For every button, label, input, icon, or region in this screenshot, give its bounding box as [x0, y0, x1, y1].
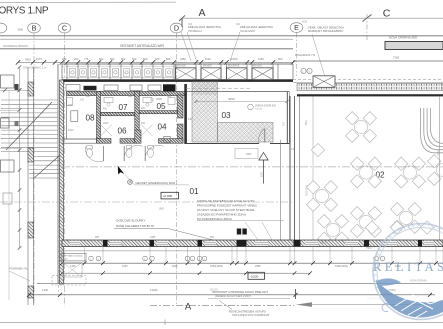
svg-text:04: 04: [157, 122, 167, 131]
svg-text:GEODET (ZAMEROVACI) BOD: GEODET (ZAMEROVACI) BOD: [136, 181, 176, 185]
svg-text:2640: 2640: [18, 28, 24, 31]
svg-text:2065: 2065: [255, 265, 261, 268]
tables room 02: [346, 112, 377, 143]
room 02 top wall dashed edge: [293, 79, 443, 81]
stair direction line: [6, 102, 52, 150]
svg-text:B: B: [32, 24, 37, 33]
dim line bottom 2: [62, 272, 310, 274]
room 03 hatched band horizontal: [218, 123, 274, 143]
svg-text:A: A: [185, 302, 192, 313]
svg-text:ZASAZEN DO PARAPETNIHO ZDIVA: ZASAZEN DO PARAPETNIHO ZDIVA: [197, 213, 246, 217]
svg-text:600x600: 600x600: [177, 65, 187, 67]
counter curves: [421, 108, 443, 153]
left margin dim line: [0, 89, 28, 91]
staircase hatch upper: [1, 100, 58, 152]
paragraph leaders: [245, 222, 258, 240]
demolished window X boxes: [176, 68, 197, 80]
svg-text:400: 400: [103, 108, 108, 111]
exterior wall inner thick edge: [62, 79, 293, 82]
svg-text:NOVA TERASA: NOVA TERASA: [410, 279, 427, 282]
room 03 hatched band vertical: [192, 82, 218, 142]
svg-text:SKLON: SKLON: [210, 289, 218, 291]
fixtures rooms 07/05: [104, 98, 113, 103]
door leaves: [103, 146, 105, 161]
main dimension line: [18, 61, 293, 63]
svg-text:ZMENA DVERI 900: ZMENA DVERI 900: [255, 105, 277, 108]
entry circles: [301, 68, 306, 73]
wall pillars bottom: [103, 240, 108, 247]
dim line bottom 3: [29, 294, 435, 296]
svg-text:1075: 1075: [36, 57, 42, 61]
entrance arrow: [259, 153, 268, 161]
svg-text:BOURANE: BOURANE: [228, 64, 240, 67]
room 08 left partition: [66, 95, 68, 139]
room 02 top wall thick line: [297, 94, 443, 96]
svg-text:ZDE (HLAVNI JEDNOTKA: ZDE (HLAVNI JEDNOTKA: [188, 25, 221, 29]
svg-text:600: 600: [99, 57, 104, 61]
corridor dashed line above 03: [186, 88, 250, 90]
svg-text:985: 985: [95, 236, 100, 239]
dashed line along left wall: [58, 215, 60, 292]
svg-text:400: 400: [141, 122, 146, 125]
svg-text:(RESENI ZACHYCENI VODY): (RESENI ZACHYCENI VODY): [215, 294, 252, 298]
door gaps in bottom wall: [70, 241, 80, 246]
svg-text:PRI TRHACICH: PRI TRHACICH: [367, 296, 386, 300]
svg-text:7560: 7560: [304, 120, 307, 126]
svg-text:C: C: [383, 8, 391, 20]
room 03 right wall: [286, 92, 288, 144]
level label -0.020: [248, 272, 265, 279]
svg-text:NOVE ZASTRESENI VSTUPU: NOVE ZASTRESENI VSTUPU: [229, 309, 266, 313]
entrance X box: [313, 76, 335, 88]
svg-text:KVETINAC 600x600: KVETINAC 600x600: [63, 254, 84, 257]
svg-text:4800: 4800: [156, 97, 162, 101]
svg-text:2080: 2080: [246, 153, 252, 156]
svg-text:1985: 1985: [150, 236, 156, 239]
exterior wall band top: [62, 63, 293, 65]
svg-text:775: 775: [84, 57, 89, 61]
svg-text:1500(1200): 1500(1200): [335, 265, 348, 268]
svg-text:ZDE (HLAVNI JEDNOTKA: ZDE (HLAVNI JEDNOTKA: [240, 25, 273, 29]
left margin small marks: [15, 84, 19, 90]
svg-text:1400: 1400: [42, 288, 48, 292]
room 03 door swing: [259, 129, 265, 144]
centre dash line 2: [0, 201, 293, 203]
svg-text:ORYS 1.NP: ORYS 1.NP: [0, 5, 49, 16]
svg-text:POHLEDNA 7%: POHLEDNA 7%: [295, 53, 316, 57]
svg-text:ZA NOVY OCELOVY SLOUP, KTERY B: ZA NOVY OCELOVY SLOUP, KTERY BUDE: [197, 208, 254, 212]
svg-text:1600: 1600: [103, 122, 109, 125]
svg-text:1500: 1500: [260, 172, 262, 178]
section arrow: [296, 302, 312, 307]
room 02 masonry band: [297, 84, 443, 91]
entrance mat: [235, 148, 258, 158]
bottom exterior wall band: [62, 240, 443, 247]
grid axis line B: [33, 33, 35, 306]
wall between 07|06 and 05|04: [101, 112, 135, 116]
svg-text:1100: 1100: [205, 57, 211, 61]
top frame line: [0, 1, 176, 3]
grid axis line E: [296, 33, 298, 77]
svg-text:KCE: KCE: [302, 21, 307, 24]
corridor counters: [66, 85, 80, 92]
rooms bottom wall: [97, 139, 112, 144]
svg-text:MOZNOST PRI ZAKAZNIKY: MOZNOST PRI ZAKAZNIKY: [308, 29, 344, 33]
room 03 bottom line: [184, 143, 259, 145]
right edge witness line: [439, 96, 441, 240]
dark shaft box: [163, 84, 176, 92]
svg-text:VESTAVET ANTENA AZD WIFI: VESTAVET ANTENA AZD WIFI: [120, 44, 164, 48]
wall between 07/06 and 05/04: [135, 91, 139, 143]
window band dividers: [61, 64, 63, 79]
window glyphs: [69, 69, 75, 76]
svg-text:5000 2000: 5000 2000: [305, 185, 307, 197]
svg-text:C: C: [62, 24, 67, 33]
grid bubble E: [290, 23, 303, 33]
kvetinac box: [61, 253, 86, 261]
svg-text:06: 06: [117, 127, 127, 136]
leader lines from notes: [181, 32, 191, 61]
svg-text:E: E: [294, 23, 299, 32]
svg-text:-0,020: -0,020: [250, 274, 259, 278]
level label 0.000: [161, 192, 179, 199]
room 03 note circle: [248, 104, 254, 110]
svg-text:900: 900: [278, 57, 283, 61]
svg-text:120: 120: [291, 148, 296, 151]
svg-text:7600: 7600: [366, 247, 372, 250]
grid axis line C: [64, 33, 66, 306]
svg-text:NAVRZENA OPRAVA: NAVRZENA OPRAVA: [3, 44, 28, 48]
svg-text:975: 975: [68, 104, 73, 107]
kvetinac X box: [63, 263, 82, 278]
svg-text:1000: 1000: [122, 265, 128, 268]
svg-text:NOVE CHLAZENI TOP 80 70: NOVE CHLAZENI TOP 80 70: [116, 224, 154, 228]
svg-text:600x600: 600x600: [253, 65, 263, 67]
svg-text:2040: 2040: [172, 265, 178, 268]
svg-text:RELITAS: RELITAS: [373, 260, 443, 274]
door swing marks rooms 06/04: [101, 125, 113, 137]
single chairs bottom row: [365, 221, 378, 234]
svg-text:985: 985: [210, 236, 215, 239]
svg-text:1306: 1306: [63, 259, 69, 261]
svg-text:PROVIZORNE PODEZDIT NAPRAVIT V: PROVIZORNE PODEZDIT NAPRAVIT VENEC: [197, 204, 257, 208]
very bottom line: [0, 321, 443, 323]
left edge fixture boxes: [1, 75, 15, 88]
svg-text:4450: 4450: [228, 97, 235, 101]
svg-text:1250: 1250: [258, 57, 264, 61]
svg-text:V.O.V (3400)+C 1.m: V.O.V (3400)+C 1.m: [23, 66, 46, 70]
wc fixtures: [87, 149, 93, 158]
svg-text:13400: 13400: [150, 288, 158, 292]
svg-text:NOVA OPERNA ZED: NOVA OPERNA ZED: [389, 36, 418, 40]
svg-text:025: 025: [80, 98, 85, 101]
room 01 right edge line: [280, 140, 282, 240]
rooms top interior wall: [67, 91, 187, 95]
svg-text:1800: 1800: [159, 207, 165, 210]
svg-text:7600: 7600: [320, 242, 326, 245]
svg-text:500: 500: [155, 57, 160, 61]
grid axis bubble (cut at left edge): [0, 23, 7, 33]
room 02 left wall lines: [289, 96, 291, 240]
dim line inside 03: [196, 101, 287, 103]
svg-text:600: 600: [110, 57, 115, 61]
svg-text:7360: 7360: [393, 55, 400, 59]
svg-text:07: 07: [118, 103, 128, 112]
witness lines bottom: [61, 247, 63, 264]
wall between 08 and 07/06: [97, 91, 101, 143]
note band left: [0, 38, 293, 40]
svg-text:(1300): (1300): [230, 57, 238, 61]
svg-text:400: 400: [141, 107, 146, 110]
svg-text:ODSTRANIT A PRIPADNE NOVAC PRE: ODSTRANIT A PRIPADNE NOVAC PRELOZIT: [212, 290, 268, 294]
door swing: [145, 145, 163, 160]
grid bubble C: [58, 23, 71, 33]
section line A bottom: [150, 304, 294, 306]
column line on axis B: [27, 67, 29, 305]
dim line bottom 1: [62, 262, 443, 264]
svg-text:ODKLAPECI POLYKARBONAT: ODKLAPECI POLYKARBONAT: [232, 313, 270, 317]
svg-text:01: 01: [189, 187, 199, 196]
svg-text:200x90: 200x90: [255, 109, 263, 111]
grid bubble D: [170, 23, 183, 33]
line below bottom wall: [62, 250, 443, 252]
wall right of block: [178, 95, 184, 118]
svg-text:A: A: [198, 7, 205, 19]
svg-text:1850: 1850: [180, 57, 186, 61]
centre dash line 1: [62, 166, 443, 168]
svg-text:600x600: 600x600: [203, 65, 213, 67]
entrance pillars: [237, 229, 241, 235]
position circles: [89, 256, 94, 261]
svg-text:05: 05: [156, 102, 166, 111]
grid bubble B: [28, 23, 41, 33]
door swing: [124, 145, 142, 160]
site line 1: [0, 35, 443, 37]
left vertical dimension line: [19, 67, 21, 248]
dashed rect bottom-left: [52, 276, 86, 286]
grid axis line D: [176, 33, 178, 305]
room 03 top line: [186, 91, 289, 93]
svg-text:200: 200: [74, 57, 79, 61]
retaining wall bar: [385, 42, 443, 50]
long line bottom: [37, 283, 443, 285]
svg-text:140: 140: [188, 118, 193, 121]
room 03 left wall: [184, 84, 187, 144]
svg-text:NAHRAZENI: NAHRAZENI: [240, 29, 255, 33]
svg-text:PROBEHLA: PROBEHLA: [188, 29, 202, 33]
svg-text:08: 08: [85, 113, 95, 122]
svg-text:03: 03: [221, 111, 231, 120]
svg-text:600: 600: [128, 95, 133, 98]
svg-text:POHRABA 7%: POHRABA 7%: [9, 267, 28, 271]
svg-text:600: 600: [62, 57, 67, 61]
terrace line right: [293, 60, 443, 62]
cursor arrow mark: [118, 166, 125, 175]
svg-text:600: 600: [166, 57, 171, 61]
svg-text:3910: 3910: [25, 58, 31, 62]
svg-text:VIDITELNE STAVEBNI (CELKOVE SL: VIDITELNE STAVEBNI (CELKOVE SLOUPY: [197, 199, 255, 203]
left exterior wall: [57, 64, 59, 284]
svg-text:025: 025: [150, 98, 155, 101]
svg-text:600: 600: [167, 95, 172, 98]
svg-text:D: D: [174, 24, 179, 33]
svg-text:1620: 1620: [68, 129, 74, 132]
staircase hatch lower: [29, 157, 61, 179]
svg-text:+0,000: +0,000: [163, 194, 173, 198]
svg-text:600: 600: [132, 57, 137, 61]
svg-text:900: 900: [86, 95, 91, 98]
small shower fixture room 04: [164, 136, 170, 142]
svg-text:600: 600: [121, 57, 126, 61]
room 08 bottom thin wall: [62, 138, 97, 140]
room 08 fixture: [71, 111, 78, 122]
door swing: [85, 146, 103, 161]
geodet point note: [128, 180, 133, 185]
left margin vertical line: [8, 90, 10, 300]
svg-text:OCELOVE SLOUPKY: OCELOVE SLOUPKY: [116, 219, 146, 223]
svg-text:1500(1200): 1500(1200): [210, 265, 223, 268]
